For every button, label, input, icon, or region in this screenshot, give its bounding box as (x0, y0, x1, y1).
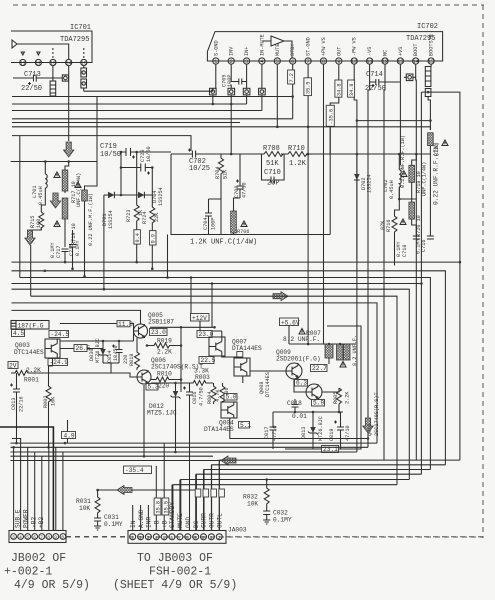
transistor Q005 (134, 312, 175, 339)
svg-text:BOOTSTR: BOOTSTR (429, 34, 435, 56)
wire q009 wiring (250, 371, 306, 392)
op-amp IC701 (11, 24, 92, 63)
resistor R715 (30, 212, 44, 230)
svg-text:STANDBY: STANDBY (169, 502, 176, 528)
diode D013 zener (301, 412, 324, 449)
voltage 22.7 (311, 365, 328, 373)
svg-text:0.22 UNF.R.F.(1W): 0.22 UNF.R.F.(1W) (433, 142, 440, 205)
svg-text:C717: C717 (56, 246, 62, 258)
node bus junction a (230, 103, 233, 106)
svg-text:DTC144ES: DTC144ES (265, 372, 271, 397)
capacitor C032 (263, 510, 292, 524)
node busD junctions (15, 442, 18, 445)
wire right loop (421, 92, 460, 474)
svg-text:34.8: 34.8 (349, 84, 355, 96)
svg-text:FSH-002-1: FSH-002-1 (149, 566, 211, 579)
wire col430 (429, 146, 431, 230)
voltage 35.5 rot (162, 498, 169, 515)
svg-text:OUTR: OUTR (209, 513, 216, 528)
capacitor C705 (222, 64, 247, 87)
wire busD y456 (11, 455, 214, 457)
wire route p11 (212, 465, 446, 531)
capacitor C702 (188, 149, 210, 174)
capacitor C704 (203, 199, 221, 235)
svg-text:0.22 UNF.R.F.(1W): 0.22 UNF.R.F.(1W) (400, 135, 406, 188)
wire busD y447 (11, 446, 369, 448)
svg-text:+B: +B (161, 520, 168, 528)
wire busD y443 (11, 442, 378, 444)
svg-text:22/16: 22/16 (19, 396, 25, 412)
capacitor C710 (262, 154, 285, 188)
transistor Q009 (276, 349, 321, 379)
voltage -35.4 (124, 466, 152, 474)
svg-text:5: 5 (163, 535, 166, 541)
svg-text:IN: IN (130, 520, 137, 528)
voltage 9.4 (134, 230, 141, 262)
op-amp IC702 (207, 23, 442, 61)
wire y412 (273, 411, 343, 413)
svg-text:R723: R723 (126, 210, 132, 222)
svg-text:3: 3 (147, 535, 150, 541)
svg-text:9.9: 9.9 (151, 234, 157, 243)
wire main y154 (171, 153, 430, 155)
diode D702 (354, 154, 372, 260)
svg-text:D013: D013 (301, 427, 307, 439)
ferrite bead pin2 (228, 85, 235, 156)
svg-text:5: 5 (26, 535, 29, 541)
svg-text:0.1MY: 0.1MY (104, 521, 123, 528)
resistor R007b pair (337, 335, 359, 367)
capacitor C714 (365, 71, 400, 93)
svg-text:+5.6V: +5.6V (281, 319, 300, 326)
svg-text:R019: R019 (157, 338, 172, 345)
svg-text:11: 11 (20, 61, 26, 67)
voltage 23.0b (197, 331, 214, 339)
voltage 34.8 (335, 80, 342, 97)
svg-text:R720 10: R720 10 (416, 215, 422, 237)
wire bus y135 (12, 136, 191, 151)
wire col167 (167, 235, 169, 278)
svg-text:4.9: 4.9 (64, 432, 75, 439)
wire pin6 (292, 64, 294, 119)
diode D030 zener (89, 338, 108, 363)
voltage -24.9 (48, 359, 68, 367)
svg-text:R724: R724 (142, 212, 148, 224)
svg-text:1.2K: 1.2K (289, 160, 307, 168)
wire rail181 (180, 327, 182, 392)
voltage 5.3 (146, 384, 159, 391)
wire route p10 (204, 470, 430, 531)
diode D701 (102, 192, 114, 229)
wire pin12 long (384, 64, 385, 460)
wire net195 (104, 194, 152, 196)
svg-text:0.45uH: 0.45uH (389, 180, 395, 199)
svg-text:5.9: 5.9 (313, 400, 324, 407)
wire bus y118 (12, 118, 293, 120)
wire pin14 drop (68, 66, 70, 141)
svg-text:NC: NC (383, 50, 389, 56)
wire 23.0 drop (211, 284, 213, 328)
wire route p12 (219, 460, 460, 530)
svg-text:51K: 51K (223, 169, 229, 179)
svg-text:1SS254: 1SS254 (158, 187, 164, 206)
svg-text:6.3: 6.3 (296, 380, 307, 387)
wire col103 (103, 195, 105, 289)
svg-text:C032: C032 (273, 510, 288, 517)
svg-text:(SHEET 4/9 OR 5/9): (SHEET 4/9 OR 5/9) (113, 579, 237, 592)
voltage 35.5 (304, 78, 312, 96)
wire JB002 drops (13, 447, 15, 530)
node JA003 small boxes (195, 489, 201, 497)
svg-text:R716: R716 (386, 220, 392, 232)
connector JB002 (9, 531, 66, 543)
svg-text:8: 8 (186, 535, 189, 541)
wire busC y289 (12, 289, 410, 479)
svg-text:22/50: 22/50 (365, 85, 386, 93)
power arrow mid (50, 193, 60, 208)
resistor R006v (220, 383, 230, 402)
wire net199 (399, 198, 416, 200)
voltage 5.1 (239, 422, 252, 430)
svg-text:S-GND: S-GND (213, 40, 219, 56)
pin 7 of IC702 (305, 37, 312, 65)
voltage 34.8 pin10 (348, 80, 355, 97)
wire y341 (60, 340, 134, 342)
wire link y120 (357, 120, 431, 122)
wire busC y270 (12, 271, 446, 465)
inductor L701 (32, 162, 47, 213)
wire pin14 long (415, 77, 418, 460)
wire pin11 long (368, 64, 370, 418)
wire pin8 col bold (189, 404, 191, 531)
svg-text:0: 0 (202, 535, 205, 541)
svg-text:7: 7 (178, 535, 181, 541)
transistor Q008 (234, 358, 271, 397)
svg-text:1: 1 (210, 535, 213, 541)
resistor R019 (146, 338, 181, 356)
pin 11 of IC701 (20, 52, 26, 67)
svg-text:2SB1187: 2SB1187 (148, 319, 174, 326)
svg-text:2SC1740S(R.S)T: 2SC1740S(R.S)T (374, 392, 380, 436)
wire route p9 (196, 474, 421, 530)
svg-text:OUTL: OUTL (217, 513, 224, 528)
svg-text:100P: 100P (227, 75, 233, 87)
svg-text:4/9 OR 5/9): 4/9 OR 5/9) (14, 579, 90, 592)
pin 8 of IC702 (320, 37, 327, 65)
svg-text:-VS: -VS (367, 47, 373, 56)
capacitor C716 (416, 230, 434, 254)
wire busC y283 (12, 283, 422, 285)
resistor R002 (43, 358, 57, 447)
wire +12V rail (150, 321, 215, 327)
ground C031 (94, 524, 101, 530)
pin 14 of IC701 (65, 59, 71, 66)
svg-text:187(F.G: 187(F.G (18, 323, 44, 330)
ferrite bead pin14 (404, 64, 416, 81)
voltage 4.5 (12, 330, 25, 338)
resistor R720 (400, 199, 422, 237)
resistor R001 (11, 367, 45, 384)
resistor R722 (428, 133, 448, 156)
voltage 9.9 (150, 231, 157, 269)
svg-text:-24.5: -24.5 (51, 331, 70, 338)
svg-text:0.22 UNF.M.F.(1W): 0.22 UNF.M.F.(1W) (88, 193, 94, 246)
svg-text:35.8: 35.8 (156, 501, 162, 513)
wire bus y122 (12, 122, 240, 124)
wire +12V drop (190, 278, 192, 315)
pin 13 of IC702 (397, 47, 404, 66)
wire pin5 (276, 64, 278, 127)
svg-text:C708: C708 (234, 186, 240, 198)
svg-text:10/50: 10/50 (113, 345, 119, 361)
resistor R010 (151, 371, 181, 390)
svg-text:0.1MY: 0.1MY (75, 240, 81, 256)
voltage +5.6V (280, 318, 300, 326)
svg-text:0: 0 (61, 535, 64, 541)
svg-text:R704: R704 (215, 167, 221, 179)
capacitor C031 (94, 514, 123, 528)
svg-text:9: 9 (194, 535, 197, 541)
capacitor C715 (69, 230, 81, 269)
svg-text:IC702: IC702 (417, 23, 438, 31)
svg-text:C704: C704 (203, 218, 209, 230)
svg-text:R002: R002 (43, 396, 49, 408)
svg-text:MUTE: MUTE (275, 44, 281, 56)
wire q004 drop (230, 418, 368, 439)
resistor R721 (75, 162, 97, 277)
connector JA003 (128, 527, 247, 544)
wire y383 (151, 382, 181, 384)
svg-text:22K: 22K (154, 212, 160, 222)
wire q007 links (200, 321, 243, 383)
svg-text:4.7/50: 4.7/50 (199, 387, 205, 406)
border bottom dashed (66, 536, 483, 538)
pin 15 of IC701 (81, 48, 87, 67)
wire busC y302 (12, 303, 378, 443)
svg-text:UNF.C(1/4W): UNF.C(1/4W) (76, 173, 82, 207)
pin 13 of IC701 (50, 48, 56, 67)
pin 2 of IC702 (228, 46, 235, 65)
pin 12 of IC702 (382, 50, 389, 65)
node testpoint Q007 (237, 352, 243, 358)
svg-text:10/50: 10/50 (100, 151, 121, 159)
svg-text:34.8: 34.8 (336, 84, 342, 96)
pin 10 of IC702 (351, 37, 358, 65)
voltage 7.2 (288, 70, 295, 84)
svg-text:100P: 100P (211, 218, 217, 230)
pin 9 of IC702 (336, 47, 343, 66)
svg-text:TO JB003 OF: TO JB003 OF (137, 552, 213, 565)
resistor R724 (142, 168, 160, 231)
wire busC y310 bold (12, 310, 141, 324)
svg-text:A.GND: A.GND (138, 509, 145, 528)
power arrow -B (63, 142, 73, 157)
voltage -35.6 (326, 105, 334, 126)
resistor pin15 box (425, 64, 431, 130)
svg-text:9.4: 9.4 (135, 233, 141, 242)
resistor R723 (126, 152, 144, 230)
wire sub bold (0, 427, 53, 531)
svg-text:22.5: 22.5 (201, 357, 216, 364)
svg-text:0.1MY: 0.1MY (416, 238, 422, 254)
resistor R706 (231, 198, 250, 235)
power arrow q010 (363, 418, 373, 447)
wire pin10 long (354, 64, 357, 260)
wire pin8 (323, 64, 325, 344)
svg-text:C019: C019 (329, 429, 335, 441)
pin 3 of IC702 (244, 47, 251, 66)
svg-text:8: 8 (47, 535, 50, 541)
svg-text:C013: C013 (11, 398, 17, 410)
resistor R719 (54, 198, 77, 247)
wire q003 base (60, 348, 103, 350)
ferrite bead pin3 (243, 64, 250, 104)
ground C032 (263, 518, 270, 524)
svg-text:0.01: 0.01 (292, 413, 307, 420)
svg-text:C017: C017 (264, 427, 270, 439)
resistor R713 (50, 80, 56, 97)
svg-text:2.2K: 2.2K (345, 391, 351, 404)
capacitor C017 (264, 412, 278, 449)
resistor R704 (215, 154, 229, 235)
svg-text:R706: R706 (237, 229, 249, 235)
voltage 5.9 (312, 400, 325, 407)
svg-text:+B2: +B2 (38, 517, 45, 528)
wire y363 (45, 363, 137, 377)
power arrow busD (221, 456, 236, 465)
svg-text:220: 220 (158, 383, 169, 390)
svg-text:IN+: IN+ (244, 47, 250, 56)
wire dash connectors (66, 536, 483, 538)
svg-text:35.5: 35.5 (163, 501, 169, 513)
voltage +12V (191, 314, 210, 322)
capacitor C717 (50, 242, 69, 261)
resistor R007 (283, 329, 333, 365)
svg-text:+-002-1: +-002-1 (4, 566, 52, 579)
voltage 2V (8, 362, 18, 370)
svg-text:10/50: 10/50 (146, 146, 152, 162)
wire busD y460 (11, 460, 222, 462)
ferrite bead pin4 (259, 64, 266, 110)
pin 11 of IC702 (366, 47, 373, 66)
wire busC y262 (12, 261, 460, 263)
wire route p7 (181, 480, 409, 531)
svg-text:R018: R018 (129, 354, 135, 366)
svg-text:C016: C016 (192, 392, 198, 404)
wire pin13 drop (52, 66, 54, 80)
svg-text:-35.4: -35.4 (125, 467, 144, 474)
resistor R003 (181, 368, 213, 386)
svg-text:0.1MY: 0.1MY (50, 242, 56, 258)
wire busD y452 (11, 451, 357, 453)
svg-text:8.2 UNF.F.: 8.2 UNF.F. (283, 336, 320, 343)
svg-text:C719: C719 (100, 143, 117, 151)
svg-text:7: 7 (40, 535, 43, 541)
wire busC y277 (20, 136, 431, 470)
svg-text:Q010: Q010 (367, 424, 373, 436)
node enclosure box (285, 326, 361, 449)
pin 6 of IC702 (290, 43, 297, 66)
svg-text:5.0: 5.0 (226, 394, 237, 401)
svg-text:12: 12 (35, 61, 41, 67)
wire route p6 (173, 485, 397, 531)
svg-text:5.3: 5.3 (148, 384, 159, 391)
wire pin13 long (399, 64, 401, 165)
inductor L702 (383, 154, 401, 199)
svg-text:6: 6 (33, 535, 36, 541)
wire node y161 (11, 161, 97, 163)
svg-text:10K: 10K (79, 505, 90, 512)
svg-text:+12V: +12V (192, 315, 207, 322)
svg-text:R004: R004 (207, 392, 213, 404)
resistor R708 (263, 145, 283, 168)
ferrite bead L703 (62, 75, 68, 81)
svg-text:C718: C718 (402, 245, 408, 257)
svg-text:C714: C714 (366, 71, 383, 79)
transistor Q010 (306, 384, 322, 400)
resistor R031 (76, 489, 100, 518)
resistor R004 (207, 383, 221, 404)
ferrite bead pin1 (210, 64, 217, 104)
svg-text:4: 4 (155, 535, 158, 541)
border right dashed (482, 5, 484, 538)
wire bus y96 (12, 97, 293, 162)
voltage 22.5 (199, 357, 216, 365)
svg-text:MUTE: MUTE (177, 513, 184, 528)
svg-text:4.5: 4.5 (13, 330, 24, 337)
svg-text:STBY: STBY (290, 43, 296, 56)
capacitor C014 (107, 341, 123, 363)
transistor Q007 (209, 337, 262, 356)
svg-text:MTZ6.8JC: MTZ6.8JC (95, 338, 101, 363)
svg-text:R005: R005 (333, 392, 339, 404)
svg-text:9: 9 (54, 535, 57, 541)
svg-text:2SD2061(F.G): 2SD2061(F.G) (276, 356, 321, 363)
node pin7 junction (307, 126, 310, 129)
svg-text:MTZ5.1JC: MTZ5.1JC (147, 410, 177, 417)
power arrow y490 (117, 486, 132, 495)
svg-text:CURR: CURR (201, 513, 208, 528)
svg-text:Q003: Q003 (15, 342, 30, 349)
pin 12 of IC701 (35, 52, 41, 67)
wire pin7 (307, 64, 309, 155)
svg-text:IN-MUTE: IN-MUTE (259, 34, 265, 56)
svg-text:+PW VS: +PW VS (321, 37, 327, 56)
svg-text:C716: C716 (421, 240, 427, 252)
transistor Q004 (204, 402, 237, 433)
svg-text:R031: R031 (76, 498, 91, 505)
svg-text:0.45uH: 0.45uH (38, 186, 44, 205)
svg-text:2: 2 (139, 535, 142, 541)
svg-text:JA003: JA003 (228, 527, 247, 534)
svg-text:51K: 51K (266, 160, 279, 168)
svg-text:R032: R032 (243, 494, 258, 501)
wire d012 drop (175, 410, 177, 452)
svg-text:INV: INV (229, 46, 235, 56)
wire C719 col (120, 152, 122, 195)
capacitor C719 (100, 143, 171, 159)
capacitor C708 (234, 154, 248, 198)
svg-text:20P: 20P (267, 180, 280, 188)
svg-text:ST-GND: ST-GND (306, 37, 312, 56)
svg-text:-35.6: -35.6 (329, 109, 335, 125)
svg-text:1.2K UNF.C(1/4W): 1.2K UNF.C(1/4W) (190, 239, 257, 247)
wire q005 base (133, 331, 135, 341)
svg-text:11.8: 11.8 (118, 321, 133, 328)
svg-text:7.2: 7.2 (289, 73, 295, 82)
svg-text:2V: 2V (9, 363, 17, 370)
svg-text:GND: GND (185, 517, 192, 528)
